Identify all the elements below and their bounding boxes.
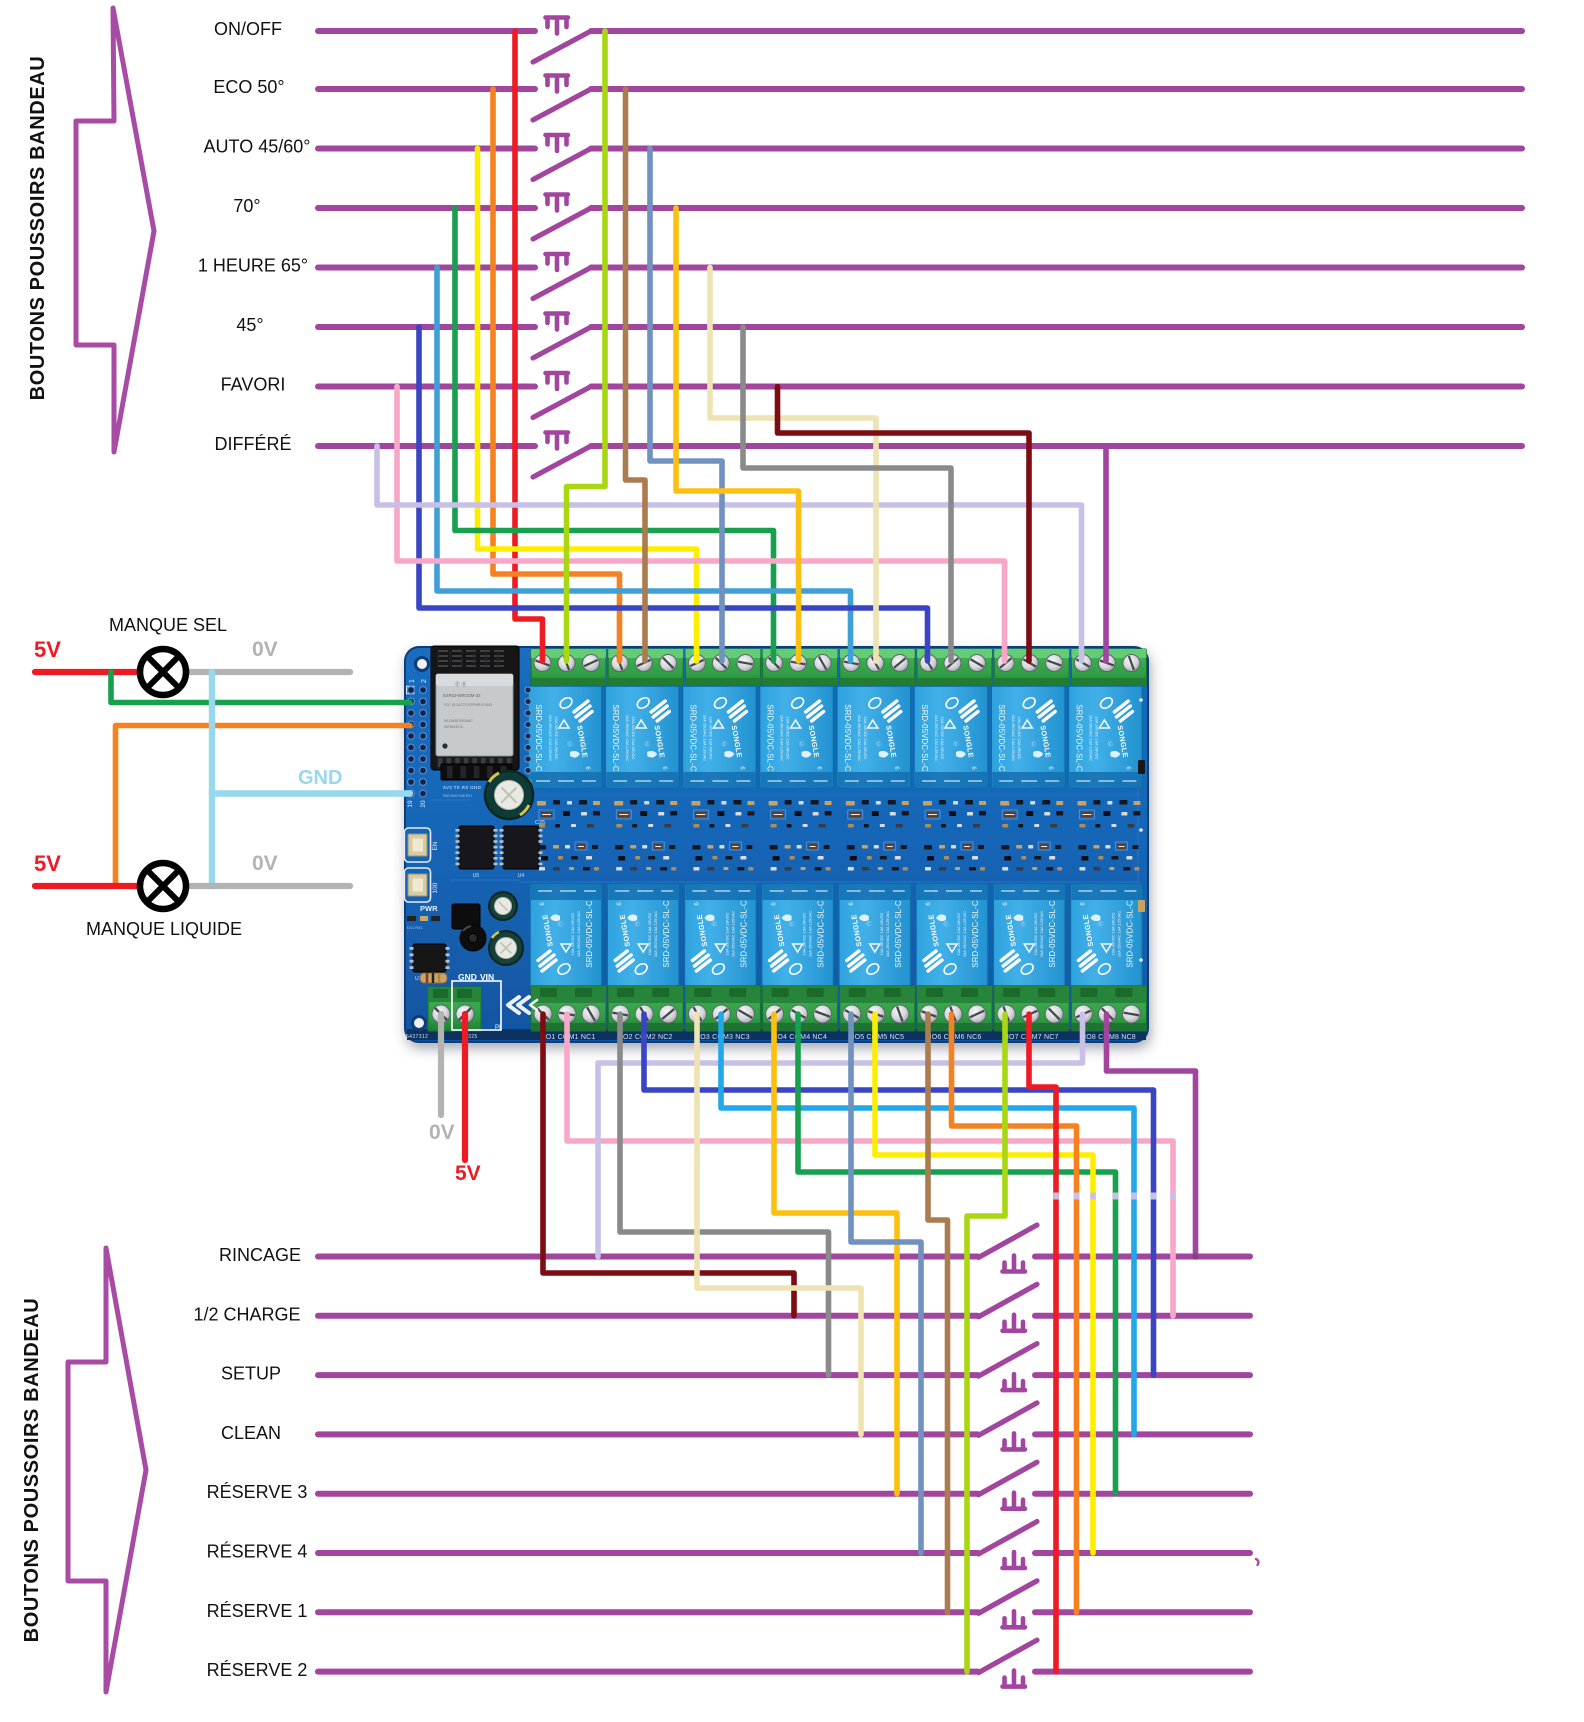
relay K16 songle logo [1078, 951, 1096, 971]
terminal block bottom J13 [840, 986, 915, 1031]
svg-text:10A 30VDC 10A 28VDC: 10A 30VDC 10A 28VDC [940, 717, 945, 760]
relay K6 [914, 686, 988, 788]
svg-text:Ⓒ: Ⓒ [866, 920, 872, 928]
junction RINCAGE / COM8 wire [1192, 1253, 1198, 1259]
relay K6 songle logo [960, 701, 978, 721]
capacitor C2 [489, 892, 517, 920]
terminal block top J1 [531, 649, 606, 686]
svg-text:Ⓒ: Ⓒ [953, 740, 959, 748]
screw J1.2 [558, 655, 575, 672]
terminal block bottom J16 [1071, 986, 1146, 1031]
svg-text:10A 250VAC 10A 125VAC: 10A 250VAC 10A 125VAC [1039, 911, 1044, 957]
svg-text:10A 30VDC 10A 28VDC: 10A 30VDC 10A 28VDC [863, 717, 868, 760]
relay K7 songle logo [1037, 701, 1055, 721]
wire 45° bus right segment [591, 324, 1522, 330]
push-button switch 1 HEURE 65° contact [533, 268, 591, 299]
programming header J2 [441, 764, 512, 780]
wire 0V from lamp MANQUE LIQUIDE [186, 883, 350, 889]
svg-text:10A 30VDC 10A 28VDC: 10A 30VDC 10A 28VDC [1110, 912, 1115, 955]
relay K14 songle logo [924, 951, 942, 971]
push-button switch CLEAN actuator [1003, 1433, 1026, 1449]
screw GND [432, 1005, 450, 1023]
wire lavender NO8 to RINCAGE [598, 1014, 1083, 1257]
svg-text:Ⓒ: Ⓒ [567, 740, 573, 748]
screw J2.2 [635, 655, 652, 672]
screw J11.1 [688, 1005, 706, 1023]
wire AUTO 45/60° bus right segment [591, 146, 1522, 152]
terminal block top J7 [994, 649, 1069, 686]
push-button switch 1 HEURE 65° actuator [546, 254, 569, 270]
wire dark-blue COM2 to SETUP [644, 1014, 1154, 1375]
screw J8.2 [1098, 655, 1115, 672]
wire light-blue 1 HEURE 65 to NO-5 [437, 268, 851, 662]
wire RÉSERVE 4 bus left segment [318, 1550, 978, 1556]
svg-text:9876543210: 9876543210 [444, 725, 463, 729]
wire steel-blue AUTO switch to COM-3 [650, 149, 722, 662]
svg-text:RINCAGE: RINCAGE [219, 1245, 301, 1265]
relay K14 [916, 884, 988, 986]
buck converter D5 [452, 904, 480, 929]
wire amber 70 switch to COM-4 [676, 208, 799, 661]
screw J16.1 [1074, 1005, 1092, 1023]
banner arrow top (BOUTONS POUSSOIRS BANDEAU) [76, 8, 154, 452]
push-button switch AUTO 45/60° actuator [546, 135, 569, 151]
wire green COM4 to RESERVE 3 [798, 1014, 1116, 1494]
screw J6.1 [920, 655, 937, 672]
wire pink FAVORI to NO-7 [397, 387, 1005, 662]
svg-text:10A 250VAC 10A 125VAC: 10A 250VAC 10A 125VAC [653, 911, 658, 957]
ESP32 shield pin1 dot [442, 743, 447, 748]
svg-text:U5: U5 [473, 873, 480, 879]
wire ON/OFF bus left segment [318, 28, 535, 34]
svg-text:5437312: 5437312 [406, 1034, 428, 1040]
svg-text:10A 250VAC 10A 125VAC: 10A 250VAC 10A 125VAC [857, 715, 862, 761]
wire 0V from GND terminal [438, 1014, 444, 1115]
svg-text:5V: 5V [34, 851, 61, 876]
svg-text:20: 20 [420, 800, 427, 808]
push-button switch 70° contact [533, 208, 591, 239]
svg-text:U4: U4 [518, 873, 525, 879]
screw J15.3 [1045, 1005, 1063, 1023]
svg-text:1: 1 [409, 679, 416, 683]
relay K4 [760, 686, 834, 788]
push-button switch SETUP contact [979, 1344, 1038, 1377]
wire 1 HEURE 65° bus right segment [591, 265, 1522, 271]
wire green MANQUE SEL to GPIO [111, 672, 410, 703]
wire brown ECO 50 switch to COM-2 [626, 89, 646, 661]
svg-text:10A 30VDC 10A 28VDC: 10A 30VDC 10A 28VDC [1033, 912, 1038, 955]
svg-text:2: 2 [421, 679, 428, 683]
svg-text:R50 R49 R48 R47: R50 R49 R48 R47 [443, 794, 472, 798]
svg-text:3V3 TX RX GND: 3V3 TX RX GND [443, 785, 482, 790]
SMD component field [537, 801, 546, 806]
svg-text:10A 30VDC 10A 28VDC: 10A 30VDC 10A 28VDC [956, 912, 961, 955]
svg-text:Ⓒ: Ⓒ [712, 920, 718, 928]
relay K4 songle logo [806, 701, 824, 721]
svg-text:1/2 CHARGE: 1/2 CHARGE [193, 1304, 300, 1324]
svg-text:Ⓔ Ⓡ: Ⓔ Ⓡ [455, 681, 466, 688]
wire yellow-green NO7 to RESERVE 2 [967, 1014, 1005, 1672]
svg-text:10A 250VAC 10A 125VAC: 10A 250VAC 10A 125VAC [548, 715, 553, 761]
svg-text:SRD-05VDC-SL-C: SRD-05VDC-SL-C [688, 704, 697, 772]
push button EN [405, 828, 431, 862]
wire red COM7 to RESERVE 2 [1029, 1014, 1056, 1672]
mounting hole top-left [416, 658, 429, 671]
push-button switch SETUP actuator [1003, 1374, 1026, 1390]
terminal block top J6 [917, 649, 992, 686]
relay K11 [684, 884, 756, 986]
push button 100 (BOOT) [405, 868, 431, 902]
svg-text:10A 30VDC 10A 28VDC: 10A 30VDC 10A 28VDC [631, 717, 636, 760]
svg-text:10A 250VAC 10A 125VAC: 10A 250VAC 10A 125VAC [808, 911, 813, 957]
screw J5.3 [891, 655, 908, 672]
wire RINCAGE bus right segment [1035, 1254, 1250, 1260]
wire 70° bus left segment [318, 205, 535, 211]
wire ON/OFF bus right segment [591, 28, 1522, 34]
svg-text:AUTO 45/60°: AUTO 45/60° [204, 137, 311, 157]
push-button switch RÉSERVE 4 contact [979, 1522, 1038, 1555]
svg-text:Ⓒ: Ⓒ [789, 920, 795, 928]
white annotation box at power terminal [452, 981, 501, 1030]
relay K15 songle logo [1001, 951, 1019, 971]
wire orange ECO 50 to NO-2 [493, 89, 620, 661]
push-button switch AUTO 45/60° contact [533, 149, 591, 180]
wire CLEAN bus left segment [318, 1431, 978, 1437]
screw J13.1 [843, 1005, 861, 1023]
svg-text:SRD-05VDC-SL-C: SRD-05VDC-SL-C [997, 704, 1006, 772]
terminal block top J4 [763, 649, 838, 686]
wire 1 HEURE 65° bus left segment [318, 265, 535, 271]
svg-text:10A 30VDC 10A 28VDC: 10A 30VDC 10A 28VDC [879, 912, 884, 955]
wire DIFFÉRÉ bus left segment [318, 443, 535, 449]
screw J4.3 [814, 655, 831, 672]
wire crossing hops [1053, 1193, 1059, 1200]
indicator lamp MANQUE SEL [140, 649, 186, 695]
svg-text:RÉSERVE 2: RÉSERVE 2 [207, 1660, 308, 1680]
IC U4 [503, 826, 539, 869]
screw J9.2 [558, 1005, 576, 1023]
relay K12 songle logo [770, 951, 788, 971]
relay K8 songle logo [1114, 701, 1132, 721]
svg-text:SRD-05VDC-SL-C: SRD-05VDC-SL-C [1125, 900, 1134, 968]
wire grey NO2 to SETUP [620, 1014, 829, 1375]
terminal block top J2 [608, 649, 683, 686]
screw J16.3 [1122, 1005, 1140, 1023]
wire pink COM1 to 1/2 CHARGE [567, 1014, 1173, 1316]
relay K1 [528, 686, 602, 788]
wire grey 45 switch to COM-6 [743, 327, 951, 661]
relay K9 [530, 884, 602, 986]
screw J11.3 [736, 1005, 754, 1023]
push-button switch ON/OFF contact [533, 31, 591, 62]
banner arrow bottom (BOUTONS POUSSOIRS BANDEAU) [68, 1248, 146, 1692]
svg-text:Ⓒ: Ⓒ [557, 920, 563, 928]
svg-text:19: 19 [407, 800, 414, 808]
wire RINCAGE bus left segment [318, 1254, 978, 1260]
svg-text:Ⓒ: Ⓒ [722, 740, 728, 748]
screw VIN [456, 1005, 474, 1023]
screw J14.2 [944, 1005, 962, 1023]
screw J13.2 [867, 1005, 885, 1023]
relay K9 songle logo [538, 951, 556, 971]
screw J12.1 [766, 1005, 784, 1023]
relay K15 [993, 884, 1065, 986]
inductor L3 [460, 925, 486, 951]
relay K2 songle logo [651, 701, 669, 721]
wire green 70 to NO-4 [455, 208, 774, 661]
svg-text:EN: EN [432, 841, 439, 850]
relay K16 [1070, 884, 1142, 986]
IC U1 [413, 944, 446, 972]
wire 0V from lamp MANQUE SEL [186, 669, 350, 675]
svg-text:RÉSERVE 4: RÉSERVE 4 [207, 1542, 308, 1562]
indicator lamp MANQUE LIQUIDE [140, 863, 186, 909]
capacitor C25 [485, 771, 533, 819]
wire FAVORI bus left segment [318, 384, 535, 390]
wire RÉSERVE 2 bus left segment [318, 1669, 978, 1675]
screw J15.1 [997, 1005, 1015, 1023]
screw J5.1 [843, 655, 860, 672]
screw J14.3 [968, 1005, 986, 1023]
svg-text:Ⓒ: Ⓒ [876, 740, 882, 748]
svg-text:Ⓒ: Ⓒ [1030, 740, 1036, 748]
svg-text:Ⓒ: Ⓒ [943, 920, 949, 928]
svg-text:SRD-05VDC-SL-C: SRD-05VDC-SL-C [766, 704, 775, 772]
screw J14.1 [920, 1005, 938, 1023]
svg-text:MANQUE SEL: MANQUE SEL [109, 615, 227, 635]
wire SETUP bus right segment [1035, 1372, 1250, 1378]
push-button switch 45° contact [533, 327, 591, 358]
push-button switch RÉSERVE 2 actuator [1003, 1671, 1026, 1687]
wire 5V to lamp MANQUE SEL [35, 669, 140, 675]
svg-text:10A 30VDC 10A 28VDC: 10A 30VDC 10A 28VDC [570, 912, 575, 955]
terminal block bottom J11 [685, 986, 760, 1031]
svg-text:10A 250VAC 10A 125VAC: 10A 250VAC 10A 125VAC [625, 715, 630, 761]
relay K2 [605, 686, 679, 788]
wire GND light blue [209, 672, 215, 886]
wire ECO 50° bus right segment [591, 86, 1522, 92]
svg-text:SRD-05VDC-SL-C: SRD-05VDC-SL-C [739, 900, 748, 968]
screw J10.2 [635, 1005, 653, 1023]
screw J12.3 [814, 1005, 832, 1023]
wire AUTO 45/60° bus left segment [318, 146, 535, 152]
push-button switch FAVORI contact [533, 387, 591, 418]
push-button switch ECO 50° contact [533, 89, 591, 120]
wire beige 1 HEURE switch to COM-5 [710, 268, 876, 662]
svg-text:10A 250VAC 10A 125VAC: 10A 250VAC 10A 125VAC [1011, 715, 1016, 761]
wire ECO 50° bus left segment [318, 86, 535, 92]
svg-text:CLEAN: CLEAN [221, 1423, 281, 1443]
screw J13.3 [891, 1005, 909, 1023]
push-button switch RÉSERVE 3 contact [979, 1462, 1038, 1495]
screw J4.1 [766, 655, 783, 672]
svg-text:10A 30VDC 10A 28VDC: 10A 30VDC 10A 28VDC [1017, 717, 1022, 760]
terminal block bottom J9 [531, 986, 606, 1031]
terminal block bottom J10 [608, 986, 683, 1031]
push-button switch RÉSERVE 3 actuator [1003, 1493, 1026, 1509]
screw J9.3 [582, 1005, 600, 1023]
svg-text:0V: 0V [429, 1121, 455, 1144]
wire FAVORI bus right segment [591, 384, 1522, 390]
screw J5.2 [867, 655, 884, 672]
svg-text:10A 30VDC 10A 28VDC: 10A 30VDC 10A 28VDC [1094, 717, 1099, 760]
push-button switch RÉSERVE 2 contact [979, 1640, 1038, 1673]
wire CLEAN bus right segment [1035, 1431, 1250, 1437]
wire yellow-green ON/OFF switch to COM-1 [567, 31, 606, 661]
push-button switch CLEAN contact [979, 1403, 1038, 1436]
svg-text:SRD-05VDC-SL-C: SRD-05VDC-SL-C [1074, 704, 1083, 772]
svg-text:Ⓒ: Ⓒ [1020, 920, 1026, 928]
terminal block bottom J12 [763, 986, 838, 1031]
screw J1.1 [534, 655, 551, 672]
mounting hole bottom-left [413, 1017, 426, 1030]
terminal block top J3 [685, 649, 760, 686]
wire dark-blue 45 to NO-6 [419, 327, 928, 661]
wire RÉSERVE 1 bus right segment [1035, 1609, 1250, 1615]
svg-text:D11 R51: D11 R51 [407, 925, 423, 930]
relay K13 [839, 884, 911, 986]
svg-text:100: 100 [432, 882, 439, 893]
push-button switch ECO 50° actuator [546, 76, 569, 92]
relay K3 [682, 686, 756, 788]
screw J6.3 [969, 655, 986, 672]
screw J8.1 [1074, 655, 1091, 672]
wire 1/2 CHARGE bus right segment [1035, 1313, 1250, 1319]
screw J10.1 [611, 1005, 629, 1023]
right edge parts [1138, 760, 1145, 774]
svg-text:10A 30VDC 10A 28VDC: 10A 30VDC 10A 28VDC [708, 717, 713, 760]
screw J16.2 [1098, 1005, 1116, 1023]
screw J10.3 [659, 1005, 677, 1023]
wire yellow COM5 to RESERVE 4 [875, 1014, 1093, 1553]
wire 5V to VIN terminal [462, 1014, 468, 1160]
svg-text:DIFFÉRÉ: DIFFÉRÉ [214, 434, 291, 454]
wire dark-red FAVORI switch to COM-7 [778, 387, 1030, 662]
svg-text:SRD-05VDC-SL-C: SRD-05VDC-SL-C [662, 900, 671, 968]
svg-text:ESP32-WROOM-32: ESP32-WROOM-32 [443, 693, 481, 698]
terminal block bottom J14 [917, 986, 992, 1031]
svg-text:10A 30VDC 10A 28VDC: 10A 30VDC 10A 28VDC [647, 912, 652, 955]
relay K5 [837, 686, 911, 788]
wire red ON/OFF to NO-1 [515, 31, 543, 661]
wire RÉSERVE 3 bus right segment [1035, 1491, 1250, 1497]
relay K11 songle logo [692, 951, 710, 971]
screw J11.2 [712, 1005, 730, 1023]
relay K8 [1068, 686, 1142, 788]
svg-text:SRD-05VDC-SL-C: SRD-05VDC-SL-C [817, 900, 826, 968]
screw J3.3 [737, 655, 754, 672]
push-button switch 1/2 CHARGE actuator [1003, 1315, 1026, 1331]
svg-text:Ⓒ: Ⓒ [1098, 920, 1104, 928]
svg-text:SRD-05VDC-SL-C: SRD-05VDC-SL-C [971, 900, 980, 968]
screw J3.2 [712, 655, 729, 672]
push-button switch FAVORI actuator [546, 373, 569, 389]
svg-text:SRD-05VDC-SL-C: SRD-05VDC-SL-C [843, 704, 852, 772]
relay K13 songle logo [847, 951, 865, 971]
push-button switch DIFFÉRÉ actuator [546, 433, 569, 449]
screw J7.1 [997, 655, 1014, 672]
screw J4.2 [790, 655, 807, 672]
svg-text:BOUTONS POUSSOIRS BANDEAU: BOUTONS POUSSOIRS BANDEAU [27, 56, 49, 401]
push-button switch RÉSERVE 1 contact [979, 1581, 1038, 1614]
push-button switch RÉSERVE 4 actuator [1003, 1552, 1026, 1568]
svg-text:10A 250VAC 10A 125VAC: 10A 250VAC 10A 125VAC [730, 911, 735, 957]
terminal block bottom J15 [994, 986, 1069, 1031]
wire brown NO6 to RESERVE 1 [928, 1014, 948, 1612]
wire 70° bus right segment [591, 205, 1522, 211]
push-button switch DIFFÉRÉ contact [533, 446, 591, 477]
wire beige NO3 to CLEAN [697, 1014, 861, 1434]
svg-text:SRD-05VDC-SL-C: SRD-05VDC-SL-C [894, 900, 903, 968]
svg-text:SRD-05VDC-SL-C: SRD-05VDC-SL-C [585, 900, 594, 968]
relay K1 songle logo [574, 701, 592, 721]
wire 1/2 CHARGE bus left segment [318, 1313, 978, 1319]
svg-text:45°: 45° [236, 315, 263, 335]
pin header J1 (1-20) [407, 686, 414, 693]
screw J6.2 [944, 655, 961, 672]
screw J15.2 [1021, 1005, 1039, 1023]
svg-text:SRD-05VDC-SL-C: SRD-05VDC-SL-C [1048, 900, 1057, 968]
push-button switch RINCAGE actuator [1003, 1256, 1026, 1272]
svg-text:SETUP: SETUP [221, 1364, 281, 1384]
wire purple DIFFERE switch to COM-8 [1103, 446, 1109, 661]
svg-text:Ⓒ: Ⓒ [634, 920, 640, 928]
wire RÉSERVE 2 bus right segment [1035, 1669, 1250, 1675]
ESP32 RF shield [436, 674, 513, 756]
push-button switch RÉSERVE 1 actuator [1003, 1611, 1026, 1627]
capacitor C1 [489, 931, 523, 965]
svg-text:PWR: PWR [420, 904, 438, 913]
pin header column right of ESP32 [525, 687, 531, 693]
screw J7.2 [1021, 655, 1038, 672]
svg-text:GND: GND [298, 767, 342, 789]
screw J2.1 [611, 655, 628, 672]
svg-text:10A 250VAC 10A 125VAC: 10A 250VAC 10A 125VAC [885, 911, 890, 957]
wire RÉSERVE 4 bus right segment [1035, 1550, 1250, 1556]
svg-text:FCC ID:2AC7Z-ESPWROOM32: FCC ID:2AC7Z-ESPWROOM32 [444, 703, 492, 707]
wire 45° bus left segment [318, 324, 535, 330]
screw J9.1 [534, 1005, 552, 1023]
svg-text:ON/OFF: ON/OFF [214, 19, 282, 39]
svg-text:10A 250VAC 10A 125VAC: 10A 250VAC 10A 125VAC [780, 715, 785, 761]
mounting hole top-right [1126, 658, 1139, 671]
wire SETUP bus left segment [318, 1372, 978, 1378]
wire orange MANQUE LIQUIDE to GPIO [116, 726, 411, 887]
push-button switch 70° actuator [546, 195, 569, 211]
svg-text:10A 250VAC 10A 125VAC: 10A 250VAC 10A 125VAC [576, 911, 581, 957]
svg-text:SRD-05VDC-SL-C: SRD-05VDC-SL-C [534, 704, 543, 772]
wire lavender DIFFERE to NO-8 [377, 446, 1082, 661]
svg-text:5V: 5V [455, 1162, 481, 1185]
terminal block top J8 [1071, 649, 1146, 686]
svg-text:BOUTONS POUSSOIRS BANDEAU: BOUTONS POUSSOIRS BANDEAU [21, 1298, 43, 1643]
relay K5 songle logo [883, 701, 901, 721]
relay board PCB [405, 646, 1149, 1042]
terminal block GND/VIN [428, 987, 481, 1031]
svg-text:MANQUE LIQUIDE: MANQUE LIQUIDE [86, 919, 242, 939]
resistor R [420, 973, 447, 983]
svg-text:10A 250VAC 10A 125VAC: 10A 250VAC 10A 125VAC [962, 911, 967, 957]
svg-text:PI: PI [495, 1025, 501, 1031]
wire yellow AUTO 45/60 to NO-3 [478, 149, 697, 662]
wire RÉSERVE 3 bus left segment [318, 1491, 978, 1497]
svg-text:RÉSERVE 1: RÉSERVE 1 [207, 1601, 308, 1621]
stray mark end of RESERVE 4 row [1256, 1559, 1258, 1565]
svg-text:10A 250VAC 10A 125VAC: 10A 250VAC 10A 125VAC [934, 715, 939, 761]
wire DIFFÉRÉ bus right segment [591, 443, 1522, 449]
svg-text:10A 250VAC 10A 125VAC: 10A 250VAC 10A 125VAC [1088, 715, 1093, 761]
screw J3.1 [688, 655, 705, 672]
